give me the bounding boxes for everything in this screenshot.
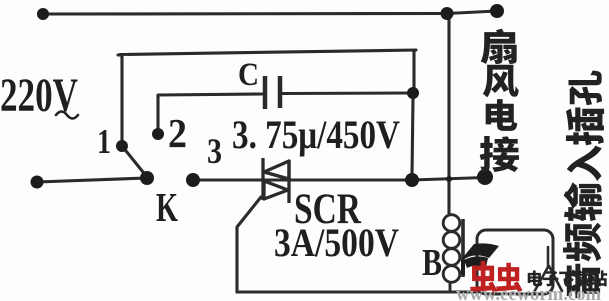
svg-text:3: 3 bbox=[207, 131, 222, 171]
node switch contact 2 bbox=[152, 128, 164, 140]
transformer B winding bbox=[443, 215, 460, 292]
wire bottom return bbox=[237, 290, 478, 293]
node switch contact 3 bbox=[186, 173, 200, 187]
node switch contact 1 bbox=[116, 140, 128, 152]
node fan terminal upper bbox=[490, 4, 504, 18]
svg-text:3A/500V: 3A/500V bbox=[274, 220, 399, 265]
svg-text:1: 1 bbox=[97, 122, 111, 161]
node junction A cap/branch bbox=[407, 87, 419, 99]
wire upper branch to switch contact 1 bbox=[118, 50, 416, 141]
label audio-input-jack char shu bbox=[564, 182, 602, 221]
label audio-input-jack char yin bbox=[563, 264, 600, 298]
watermark site name char 5 bbox=[591, 270, 607, 286]
node mains top-left terminal bbox=[37, 8, 49, 20]
watermark bug char 2 (red) bbox=[496, 263, 522, 293]
watermark site name char 2 bbox=[543, 271, 558, 286]
audio plug symbol bbox=[533, 247, 562, 294]
svg-text:3. 75μ/450V: 3. 75μ/450V bbox=[232, 112, 400, 157]
triac SCR symbol bbox=[263, 158, 289, 203]
svg-text:2: 2 bbox=[168, 110, 187, 156]
node switch pole bbox=[140, 171, 154, 185]
watermark graduation cap bbox=[460, 243, 499, 275]
label audio-input-jack char cha bbox=[566, 107, 604, 145]
node junction B main line bbox=[405, 173, 419, 187]
wire capacitor branch from contact 2 bbox=[158, 94, 262, 130]
label connect-electric-fan char jie bbox=[480, 136, 519, 172]
capacitor C plates bbox=[265, 76, 280, 109]
svg-text:www.eeworm.com: www.eeworm.com bbox=[456, 285, 602, 301]
label AC tilde under V bbox=[56, 112, 78, 119]
wire capacitor right to junction A bbox=[283, 91, 412, 95]
svg-text:B: B bbox=[422, 242, 442, 284]
watermark site name char 1 bbox=[528, 271, 543, 287]
node wire crossing blob bbox=[446, 176, 452, 182]
node mains lower-left terminal bbox=[31, 176, 44, 189]
wire right rail down from top junction bbox=[447, 14, 450, 214]
wire top rail L1 bbox=[43, 11, 497, 14]
transformer B core bar bbox=[461, 219, 465, 277]
svg-text:K: K bbox=[156, 184, 178, 230]
label audio-input-jack char ru bbox=[567, 146, 602, 181]
svg-text:C: C bbox=[238, 57, 259, 93]
audio input jack box bbox=[477, 230, 553, 294]
switch K blade bbox=[122, 146, 147, 177]
watermark site name char 3 bbox=[559, 272, 574, 287]
wire mains left terminal to switch pole bbox=[37, 178, 147, 182]
node top junction to fan rail bbox=[441, 7, 454, 20]
node fan terminal lower bbox=[477, 169, 493, 185]
label audio-input-jack char pin bbox=[563, 223, 601, 262]
watermark bug char 1 (red) bbox=[470, 261, 497, 293]
label connect-electric-fan char feng bbox=[483, 65, 519, 98]
label connect-electric-fan char dian bbox=[486, 99, 518, 131]
label audio-input-jack char kong bbox=[568, 70, 601, 105]
watermark site name char 4 bbox=[575, 270, 591, 286]
wire gate of SCR bbox=[237, 197, 261, 292]
label connect-electric-fan char shan bbox=[481, 29, 517, 64]
wire contact 3 through triac to fan terminal bbox=[193, 178, 485, 181]
wire junction A down to main line bbox=[412, 98, 413, 176]
